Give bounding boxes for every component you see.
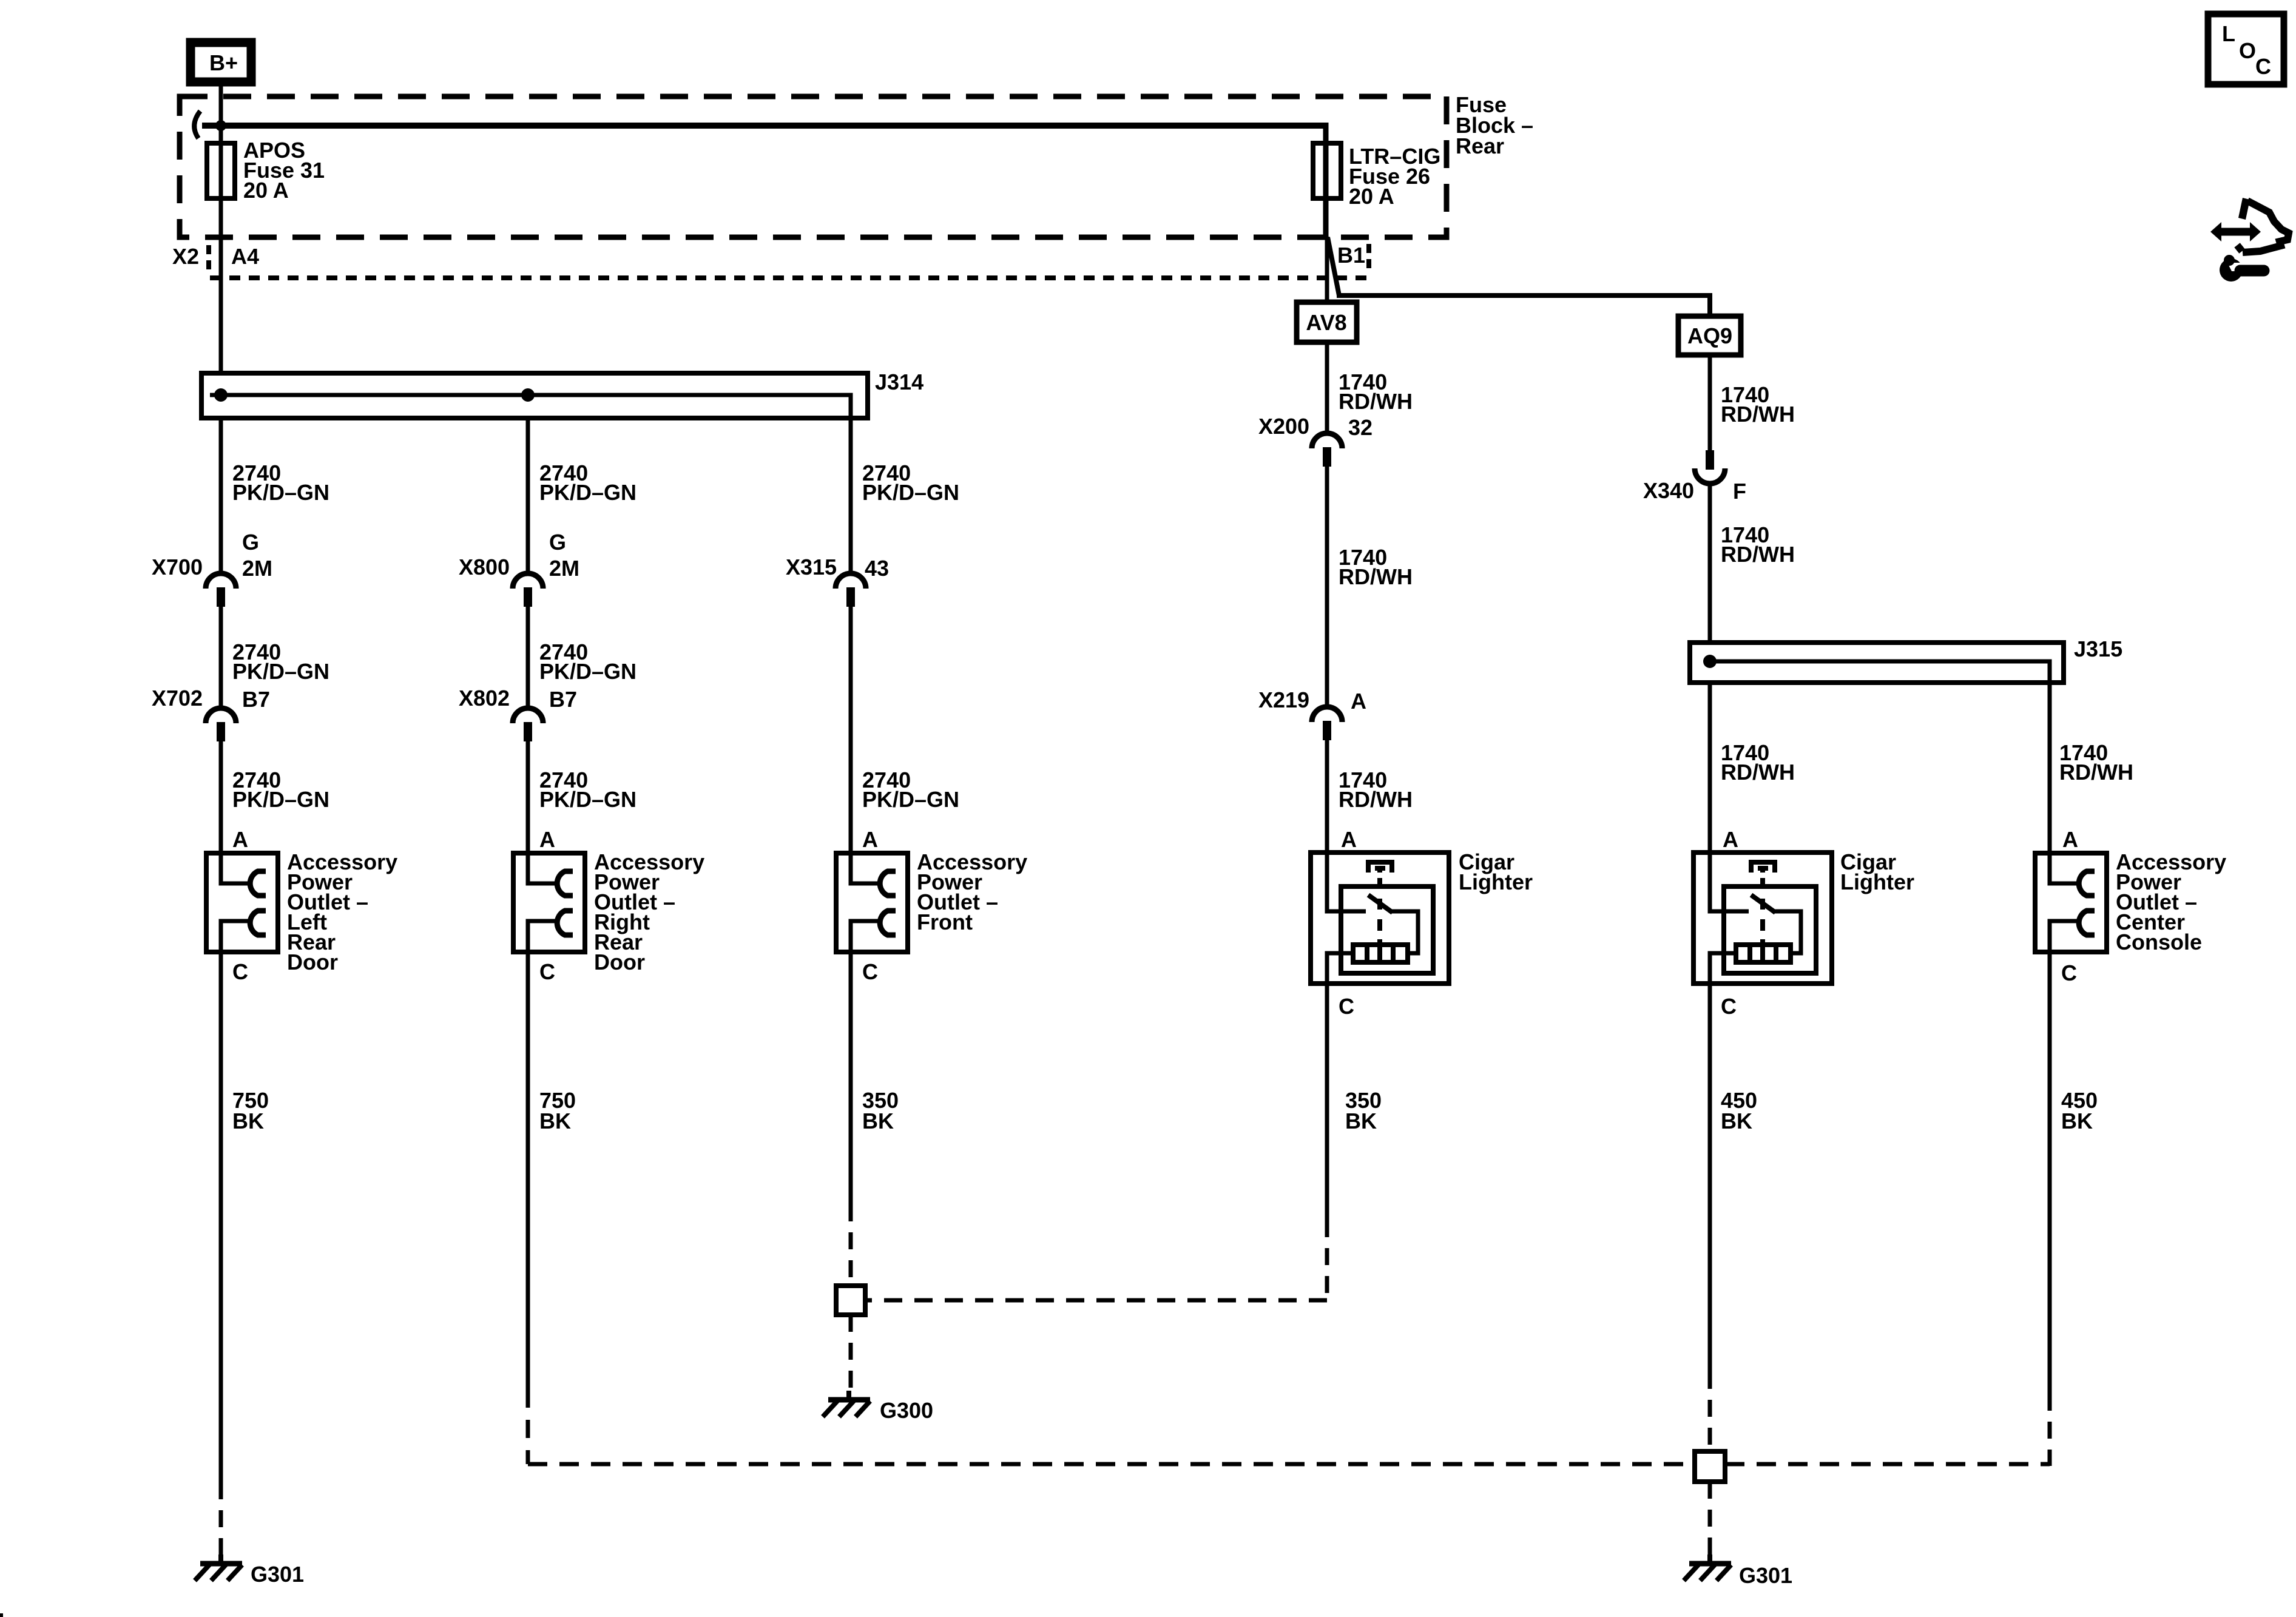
svg-text:G300: G300 (880, 1398, 933, 1423)
feed corner down through fuse 26 (1323, 123, 1329, 240)
splice box J315 (1690, 643, 2064, 683)
label X340 (1643, 478, 1694, 503)
accessory power outlet - center console (2035, 853, 2107, 952)
wire lighter 2 down (1708, 984, 1712, 1372)
svg-text:L: L (2222, 21, 2235, 46)
wire X800 to X802 (526, 607, 530, 709)
wire J315 to console outlet (2048, 683, 2052, 856)
ground bus dashed left segment (528, 1462, 1694, 1467)
label 2740 PK/D-GN col1 mid (232, 640, 329, 684)
svg-text:G: G (242, 530, 259, 555)
wire AV8 label segment (1325, 342, 1329, 435)
label 1740 RD/WH col6 (2059, 740, 2133, 785)
label 350 BK col4 (1345, 1088, 1382, 1133)
svg-text:X315: X315 (786, 555, 837, 579)
ground G301 left (195, 1555, 242, 1581)
ground junction square G301 (1695, 1451, 1725, 1482)
dashed corner col2 to ground bus (526, 1389, 530, 1464)
label X802 (459, 686, 510, 711)
label 2740 PK/D-GN col3 upper (862, 461, 959, 505)
dashed wire to G301 left (219, 1482, 223, 1557)
junction dot J314 col2 (521, 388, 535, 402)
svg-text:G301: G301 (251, 1562, 304, 1587)
wire X315 to outlet (849, 607, 853, 856)
svg-text:43: 43 (865, 556, 889, 581)
label 750 BK col2 (539, 1088, 576, 1133)
wire B+ through fuse 31 to J314 (219, 86, 223, 376)
svg-text:A4: A4 (231, 244, 259, 269)
label 2740 PK/D-GN col3 lower (862, 768, 959, 812)
label pin F (1733, 479, 1746, 504)
svg-text:32: 32 (1348, 415, 1373, 440)
label 1740 RD/WH col4 top (1339, 370, 1413, 414)
wire outlet down col2 (526, 952, 530, 1389)
svg-text:B1: B1 (1337, 243, 1365, 268)
service icon arrows and wrench (2210, 198, 2289, 282)
label B7 col1 (242, 687, 270, 712)
wire X802 to outlet (526, 741, 530, 856)
dashed wire col4 to square G300 (864, 1298, 1327, 1303)
label 1740 RD/WH col4 mid (1339, 545, 1413, 589)
label 2740 PK/D-GN col2 lower (539, 768, 636, 812)
svg-text:A: A (862, 827, 878, 852)
accessory power outlet - left rear door (206, 853, 278, 952)
wire J314 to X800 (526, 416, 530, 574)
connector X800 (513, 573, 543, 607)
label X700 (152, 555, 203, 579)
wire outlet down col3 (849, 952, 853, 1204)
svg-text:G301: G301 (1739, 1563, 1792, 1588)
fuse 26 LTR-CIG (1313, 143, 1341, 198)
label AQ9 (1687, 323, 1732, 348)
dashed wire col5 to square G301 (1708, 1372, 1712, 1451)
svg-text:O: O (2239, 38, 2256, 63)
label pin A X219 (1351, 689, 1366, 714)
ground junction square G300 (836, 1286, 865, 1315)
connector X219 (1312, 707, 1342, 740)
label G col2 (549, 530, 566, 555)
svg-text:A: A (539, 827, 555, 852)
label X702 (152, 686, 203, 711)
connector X315 (836, 573, 866, 607)
J314 internal bus (210, 395, 851, 420)
svg-text:AV8: AV8 (1306, 310, 1346, 335)
wire X219 to cigar lighter (1325, 740, 1329, 856)
fuse block dashed box Fuse Block - Rear (180, 96, 1447, 237)
svg-text:C: C (1721, 994, 1737, 1019)
svg-text:X700: X700 (152, 555, 203, 579)
wire X702 to outlet (219, 741, 223, 856)
label pin C col1 (232, 959, 248, 984)
label pin A col5 (1723, 827, 1738, 852)
svg-text:F: F (1733, 479, 1746, 504)
svg-text:B+: B+ (209, 50, 238, 75)
label pin A col6 (2062, 827, 2078, 852)
connector X702 (206, 708, 236, 741)
svg-text:450BK: 450BK (1721, 1088, 1757, 1133)
label 350 BK col3 (862, 1088, 899, 1133)
label X800 (459, 555, 510, 579)
option box AV8 (1297, 302, 1357, 342)
label G300 (880, 1398, 933, 1423)
label pin A col1 (232, 827, 248, 852)
svg-text:C: C (1339, 994, 1354, 1019)
connector X700 (206, 573, 236, 607)
ground bus dashed right segment (1725, 1462, 2050, 1467)
label 1740 RD/WH col5 mid (1721, 522, 1795, 567)
svg-text:C: C (2255, 54, 2271, 79)
label J314 (875, 370, 923, 394)
label Accessory Power Outlet Left Rear Door (287, 849, 397, 974)
svg-text:C: C (2061, 960, 2077, 985)
dashed wire col3 to splice square (849, 1204, 853, 1285)
svg-text:350BK: 350BK (862, 1088, 899, 1133)
label pin C col4 (1339, 994, 1354, 1019)
svg-text:J314: J314 (875, 370, 923, 394)
feed wire to AQ9 (1337, 293, 1710, 298)
wire X700 to X702 (219, 607, 223, 709)
svg-text:750BK: 750BK (539, 1088, 576, 1133)
cigar lighter 2 (1693, 852, 1832, 984)
svg-text:X200: X200 (1258, 414, 1309, 439)
wire lighter down col4 (1325, 984, 1329, 1220)
svg-text:X340: X340 (1643, 478, 1694, 503)
wire X200 to X219 (1325, 467, 1329, 707)
svg-text:2M: 2M (242, 556, 272, 581)
wire branch diagonal to AQ9 feed (1328, 237, 1339, 295)
label Accessory Power Outlet Center Console (2116, 849, 2226, 954)
label 2740 PK/D-GN col2 mid (539, 640, 636, 684)
svg-text:A: A (1723, 827, 1738, 852)
svg-text:2M: 2M (549, 556, 579, 581)
option box AQ9 (1678, 316, 1741, 355)
dashed wire square to G300 (849, 1315, 853, 1393)
label pin C col3 (862, 959, 878, 984)
label B1 (1337, 243, 1365, 268)
junction dot J314 col1 (214, 388, 228, 402)
ground G300 (823, 1391, 870, 1417)
label pin A col2 (539, 827, 555, 852)
label Accessory Power Outlet Front (917, 849, 1027, 934)
label pin C col6 (2061, 960, 2077, 985)
label 1740 RD/WH col5 lower (1721, 740, 1795, 785)
label G301 left (251, 1562, 304, 1587)
label 450 BK col6 (2061, 1088, 2098, 1133)
label pin A col3 (862, 827, 878, 852)
main feed wire B+ to LTR-CIG fuse (202, 123, 1326, 129)
fuse 31 APOS (207, 143, 235, 198)
accessory power outlet - front (836, 853, 908, 952)
label B7 col2 (549, 687, 577, 712)
svg-text:G: G (549, 530, 566, 555)
svg-text:X702: X702 (152, 686, 203, 711)
wire outlet down col6 (2048, 952, 2052, 1394)
label G col1 (242, 530, 259, 555)
splice box J314 (201, 373, 868, 418)
connector X340 (1695, 450, 1725, 484)
svg-text:750BK: 750BK (232, 1088, 269, 1133)
J315 internal bus (1710, 661, 2050, 685)
label 2M col1 (242, 556, 272, 581)
label pin C col5 (1721, 994, 1737, 1019)
svg-text:C: C (862, 959, 878, 984)
label 1740 RD/WH col4 lower (1339, 768, 1413, 812)
dashed corner col6 to ground bus (2048, 1394, 2052, 1466)
connector tick B1 (1366, 244, 1371, 271)
svg-text:X800: X800 (459, 555, 510, 579)
label 2740 PK/D-GN col1 lower (232, 768, 329, 812)
label J315 (2074, 636, 2122, 661)
label 2740 PK/D-GN col2 upper (539, 461, 636, 505)
svg-text:C: C (232, 959, 248, 984)
svg-text:450BK: 450BK (2061, 1088, 2098, 1133)
label 750 BK col1 (232, 1088, 269, 1133)
label X315 (786, 555, 837, 579)
label 32 (1348, 415, 1373, 440)
svg-text:B7: B7 (549, 687, 577, 712)
svg-text:X802: X802 (459, 686, 510, 711)
dashed wire col4 down (1325, 1220, 1329, 1300)
connector X200 (1312, 433, 1342, 467)
connector boundary dotted line X2/B1 (210, 275, 1366, 280)
label pin C col2 (539, 959, 555, 984)
label 1740 RD/WH col5 top (1721, 382, 1795, 427)
svg-text:A: A (1351, 689, 1366, 714)
label X219 (1258, 687, 1309, 712)
label LTR-CIG Fuse 26 20 A (1349, 144, 1440, 209)
junction dot at B+ feed (215, 120, 226, 131)
label Accessory Power Outlet Right Rear Door (594, 849, 704, 974)
svg-text:A: A (232, 827, 248, 852)
ground G301 right (1684, 1555, 1731, 1581)
wire J314 to X700 (219, 416, 223, 574)
page corner mark (0, 1613, 3, 1617)
label A4 (231, 244, 259, 269)
svg-text:AQ9: AQ9 (1687, 323, 1732, 348)
label 43 (865, 556, 889, 581)
wire X340 to J315 (1708, 484, 1712, 645)
cigar lighter 1 (1311, 852, 1449, 984)
label Cigar Lighter 2 (1840, 849, 1914, 894)
wire AQ9 to X340 (1708, 355, 1712, 451)
label X2 (172, 244, 199, 269)
svg-text:X2: X2 (172, 244, 199, 269)
LOC box icon (2208, 14, 2284, 84)
label AV8 (1306, 310, 1346, 335)
label pin A col4 (1341, 827, 1357, 852)
connector tick X2 (206, 245, 211, 272)
label X200 (1258, 414, 1309, 439)
svg-text:J315: J315 (2074, 636, 2122, 661)
feed corner down to AQ9 (1707, 293, 1712, 318)
svg-text:B7: B7 (242, 687, 270, 712)
label 450 BK col5 (1721, 1088, 1757, 1133)
svg-text:350BK: 350BK (1345, 1088, 1382, 1133)
svg-text:C: C (539, 959, 555, 984)
wire fuse 26 to AV8 (1325, 237, 1329, 305)
svg-text:A: A (1341, 827, 1357, 852)
label Cigar Lighter 1 (1459, 849, 1533, 894)
svg-text:A: A (2062, 827, 2078, 852)
wire J315 to cigar lighter 2 (1708, 683, 1712, 856)
svg-text:X219: X219 (1258, 687, 1309, 712)
label 2740 PK/D-GN col1 upper (232, 461, 329, 505)
junction dot J315 (1703, 655, 1717, 668)
power symbol B+ (191, 42, 251, 82)
wire J314 to X315 (849, 418, 853, 574)
label 2M col2 (549, 556, 579, 581)
label Fuse Block - Rear (1456, 92, 1533, 158)
dashed wire square to G301 right (1708, 1482, 1712, 1557)
connector X802 (513, 708, 543, 741)
splice clip symbol at feed (194, 111, 200, 138)
label APOS Fuse 31 20 A (243, 138, 325, 203)
wire outlet to ground col1 (219, 952, 223, 1482)
label G301 right (1739, 1563, 1792, 1588)
accessory power outlet - right rear door (513, 853, 585, 952)
